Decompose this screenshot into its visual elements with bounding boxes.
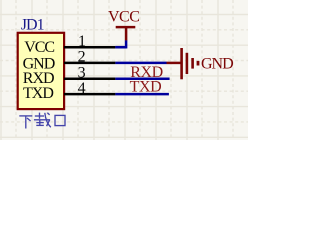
- svg-text:TXD: TXD: [130, 79, 162, 96]
- svg-text:2: 2: [78, 49, 86, 66]
- svg-text:VCC: VCC: [24, 39, 54, 56]
- svg-text:4: 4: [78, 80, 86, 97]
- svg-text:JD1: JD1: [21, 16, 45, 33]
- svg-text:VCC: VCC: [108, 9, 139, 26]
- svg-text:GND: GND: [201, 56, 233, 73]
- svg-text:TXD: TXD: [23, 85, 53, 102]
- svg-text:1: 1: [78, 33, 86, 50]
